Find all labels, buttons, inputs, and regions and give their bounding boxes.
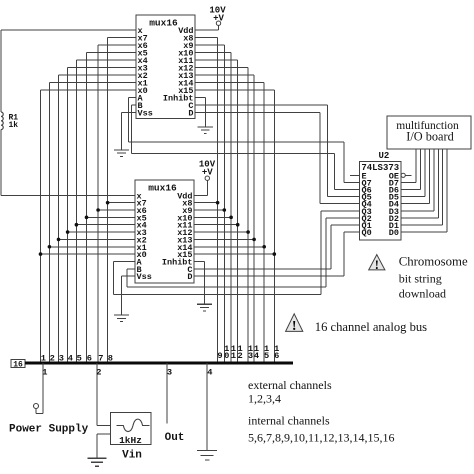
wire I/O board to U2 pin D0 — [401, 149, 447, 232]
svg-text:6: 6 — [274, 351, 279, 361]
wire channel 2: mux16 lower x1 tap — [48, 245, 135, 249]
wire channel 9: mux16 lower x8 tap — [194, 201, 219, 205]
wire channel 10: mux16 upper x9 to bus — [195, 45, 224, 363]
wire mux16 upper Vss to ground — [122, 113, 136, 150]
internal channels label — [248, 414, 395, 445]
wire external channel 1 drop — [36, 363, 43, 414]
16 channel analog bus wire — [25, 361, 293, 364]
wire channel 12: mux16 lower x11 tap — [194, 223, 240, 227]
svg-text:5: 5 — [264, 351, 269, 361]
svg-text:D: D — [188, 109, 193, 119]
Chromosome bit string download label — [399, 255, 468, 301]
svg-text:6: 6 — [87, 354, 92, 364]
U2 pin E stub — [350, 174, 360, 176]
ground (mux16 upper Inhibt) — [198, 127, 213, 134]
wire I/O board to U2 pin D4 — [401, 149, 430, 204]
wire channel 12: mux16 upper x11 to bus — [195, 60, 238, 363]
svg-text:16: 16 — [13, 361, 23, 370]
Vin label — [122, 450, 142, 462]
svg-text:bit string: bit string — [399, 272, 442, 286]
wire channel 15: mux16 upper x14 to bus — [195, 83, 264, 364]
external channels label — [248, 378, 332, 405]
svg-text:4: 4 — [207, 368, 212, 378]
IC mux16 (upper) body — [136, 15, 195, 119]
wire mux16 lower A to U2 Q3 — [113, 211, 359, 294]
wire channel 7: mux16 lower x6 tap — [96, 208, 135, 212]
mux16 upper left pin labels — [138, 26, 153, 119]
wire channel 5: mux16 upper x4 to bus — [76, 60, 136, 363]
wire mux16 upper pin x to R1 — [1, 30, 136, 112]
wire I/O board to U2 pin D2 — [401, 149, 438, 218]
wire mux16 lower Vss to ground — [122, 276, 136, 315]
node external channel 4 label — [207, 368, 212, 378]
svg-text:8: 8 — [108, 354, 113, 364]
wire external channel 4 drop to ground — [206, 363, 208, 451]
wire external channel 3 drop (Out) — [166, 363, 168, 423]
1kHz source box — [110, 413, 151, 446]
wire I/O board to U2 pin D3 — [401, 149, 434, 211]
wire mux16 upper Inhibt to ground — [195, 98, 205, 127]
svg-text:Q0: Q0 — [362, 228, 372, 238]
U2 reference label — [379, 151, 390, 161]
multifunction I/O board box — [387, 116, 471, 149]
wire I/O board to U2 pin D1 — [401, 149, 443, 225]
svg-text:7: 7 — [98, 354, 103, 364]
svg-text:download: download — [399, 287, 446, 301]
wire channel 13: mux16 lower x12 tap — [194, 230, 250, 234]
ground (mux16 lower Inhibt) — [197, 304, 212, 311]
wire mux16 upper A to U2 Q7 — [129, 98, 360, 183]
ground (mux16 lower Vss) — [114, 315, 129, 322]
wire channel 11: mux16 upper x10 to bus — [195, 53, 231, 364]
wire R1 to mux16 lower pin x — [1, 130, 135, 196]
svg-text:1: 1 — [42, 368, 47, 378]
power 10V +V supply (upper) — [195, 6, 226, 31]
mux16 lower right pin labels — [162, 191, 193, 282]
svg-text:I/O board: I/O board — [406, 130, 453, 144]
U2 left pin labels — [362, 171, 372, 238]
wire mux16 lower Inhibt to ground — [194, 261, 204, 304]
svg-text:U2: U2 — [379, 151, 390, 161]
svg-text:external channels: external channels — [248, 378, 332, 392]
wire channel 3: mux16 lower x2 tap — [57, 238, 135, 242]
wire 1kHz source to ground — [97, 434, 110, 458]
mux16 upper right pin labels — [163, 26, 194, 119]
bus channel number labels 1-8 — [41, 354, 113, 364]
node 16 (bus width tag) box — [11, 360, 25, 370]
svg-text:16 channel analog bus: 16 channel analog bus — [315, 320, 427, 334]
wire mux16 lower B to U2 Q2 — [127, 218, 360, 287]
wire channel 5: mux16 lower x4 tap — [75, 223, 135, 227]
wire I/O board to U2 pin D7 — [401, 149, 416, 182]
ground (1kHz source) — [88, 458, 107, 466]
svg-text:Vss: Vss — [138, 109, 153, 119]
Out label — [165, 432, 185, 444]
wire channel 9: mux16 upper x8 to bus — [195, 38, 218, 364]
svg-text:1k: 1k — [9, 121, 19, 130]
wire mux16 upper C to U2 Q5 — [195, 105, 360, 197]
svg-text:4: 4 — [254, 351, 259, 361]
warning triangle: Chromosome bit string download — [369, 255, 385, 272]
IC mux16 (lower) body — [135, 180, 194, 283]
IC U2 74LS373 body — [360, 162, 402, 241]
svg-text:!: ! — [375, 258, 379, 272]
node external channel 3 label — [167, 368, 172, 378]
wire mux16 upper D to U2 Q4 — [195, 113, 360, 204]
bus channel number label 9 — [217, 351, 222, 361]
wire channel 1: mux16 lower x0 tap — [39, 252, 135, 256]
svg-text:mux16: mux16 — [148, 183, 177, 194]
wire channel 11: mux16 lower x10 tap — [194, 216, 233, 220]
wire I/O board to U2 pin D5 — [401, 149, 425, 197]
svg-text:!: ! — [292, 319, 297, 334]
wire channel 6: mux16 lower x5 tap — [85, 216, 135, 220]
svg-text:D0: D0 — [389, 228, 399, 238]
wire external channel 2 drop to 1kHz source — [97, 363, 111, 425]
wire mux16 lower C to U2 Q1 — [194, 225, 360, 269]
svg-text:2: 2 — [50, 354, 55, 364]
svg-text:3: 3 — [59, 354, 64, 364]
wire channel 15: mux16 lower x14 tap — [194, 245, 266, 249]
wire channel 14: mux16 lower x13 tap — [194, 238, 256, 242]
16 channel analog bus label — [315, 320, 427, 334]
wire channel 8: mux16 upper x7 to bus — [108, 38, 136, 364]
svg-text:3: 3 — [248, 351, 253, 361]
node external channel 2 label — [96, 368, 101, 378]
wire channel 4: mux16 lower x3 tap — [66, 230, 135, 234]
mux16 lower left pin labels — [137, 191, 152, 282]
wire channel 3: mux16 upper x2 to bus — [59, 75, 137, 363]
svg-text:Vss: Vss — [137, 272, 152, 282]
svg-text:1,2,3,4: 1,2,3,4 — [248, 391, 281, 405]
svg-text:1: 1 — [231, 351, 236, 361]
svg-text:5,6,7,8,9,10,11,12,13,14,15,16: 5,6,7,8,9,10,11,12,13,14,15,16 — [248, 431, 395, 445]
svg-text:Out: Out — [165, 432, 185, 444]
wire channel 4: mux16 upper x3 to bus — [68, 68, 136, 364]
svg-text:2: 2 — [237, 351, 242, 361]
power 10V +V supply (lower) — [194, 160, 216, 196]
svg-text:5: 5 — [77, 354, 82, 364]
svg-text:D: D — [187, 272, 192, 282]
svg-text:0: 0 — [224, 351, 229, 361]
Power Supply connector circle — [34, 404, 39, 409]
svg-text:Vin: Vin — [122, 450, 142, 462]
svg-text:internal channels: internal channels — [248, 414, 330, 428]
svg-text:2: 2 — [96, 368, 101, 378]
svg-text:mux16: mux16 — [149, 18, 178, 29]
wire channel 2: mux16 upper x1 to bus — [49, 83, 136, 364]
wire mux16 upper B to U2 Q6 — [132, 105, 360, 190]
Power Supply label — [9, 424, 89, 436]
warning triangle: 16 channel analog bus — [286, 314, 303, 334]
wire channel 7: mux16 upper x6 to bus — [98, 45, 136, 363]
wire channel 13: mux16 upper x12 to bus — [195, 68, 248, 364]
wire channel 16: mux16 upper x15 to bus — [195, 90, 274, 363]
svg-text:Power Supply: Power Supply — [9, 424, 89, 436]
wire channel 1: mux16 upper x0 to bus — [41, 90, 137, 363]
svg-text:1: 1 — [41, 354, 46, 364]
wire channel 8: mux16 lower x7 tap — [106, 201, 135, 205]
U2 pin OE bubble and stub — [401, 173, 411, 177]
svg-text:Chromosome: Chromosome — [399, 255, 468, 269]
R1 value label — [9, 114, 19, 131]
wire mux16 lower D to U2 Q0 — [194, 232, 360, 276]
svg-text:1kHz: 1kHz — [119, 435, 142, 446]
wire channel 16: mux16 lower x15 tap — [194, 252, 276, 256]
ground (mux16 upper Vss) — [114, 150, 129, 157]
wire I/O board to U2 pin D6 — [401, 149, 421, 190]
ground (external channel 4) — [197, 451, 217, 461]
wire channel 14: mux16 upper x13 to bus — [195, 75, 254, 363]
resistor R1 — [1, 112, 3, 130]
svg-text:4: 4 — [68, 354, 73, 364]
wire channel 6: mux16 upper x5 to bus — [87, 53, 137, 364]
bus channel number labels 10-16 — [224, 344, 279, 361]
svg-text:3: 3 — [167, 368, 172, 378]
svg-text:9: 9 — [217, 351, 222, 361]
wire channel 10: mux16 lower x9 tap — [194, 208, 226, 212]
node external channel 1 label — [42, 368, 47, 378]
U2 right pin labels — [389, 171, 399, 238]
